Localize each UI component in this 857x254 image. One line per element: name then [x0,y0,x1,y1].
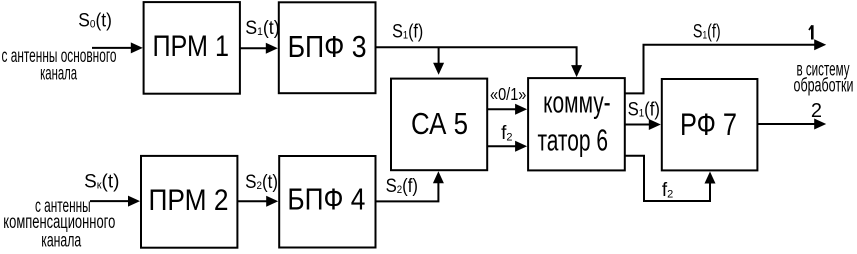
svg-text:S2(f): S2(f) [386,176,418,197]
svg-text:ПРМ 2: ПРМ 2 [149,184,229,217]
svg-text:комму-: комму- [543,86,611,120]
svg-text:S1(f): S1(f) [693,22,721,43]
svg-text:S1(t): S1(t) [245,18,280,39]
svg-text:канала: канала [41,231,81,252]
svg-text:БПФ 3: БПФ 3 [288,29,367,64]
svg-text:Sк(t): Sк(t) [84,172,119,193]
svg-text:2: 2 [811,100,822,122]
svg-text:f2: f2 [662,180,673,201]
svg-text:ПРМ 1: ПРМ 1 [152,30,229,63]
svg-text:БПФ 4: БПФ 4 [287,182,365,217]
svg-text:S0(t): S0(t) [78,11,112,32]
svg-text:S1(f): S1(f) [392,21,423,42]
svg-text:РФ 7: РФ 7 [680,106,737,142]
svg-text:СА 5: СА 5 [411,106,468,141]
svg-text:канала: канала [40,64,77,85]
svg-text:татор 6: татор 6 [537,123,608,157]
svg-text:f2: f2 [501,123,512,144]
svg-text:S2(t): S2(t) [245,172,278,193]
svg-text:обработки: обработки [794,76,854,97]
svg-text:S1(f): S1(f) [628,100,660,121]
svg-text:«0/1»: «0/1» [490,84,527,104]
